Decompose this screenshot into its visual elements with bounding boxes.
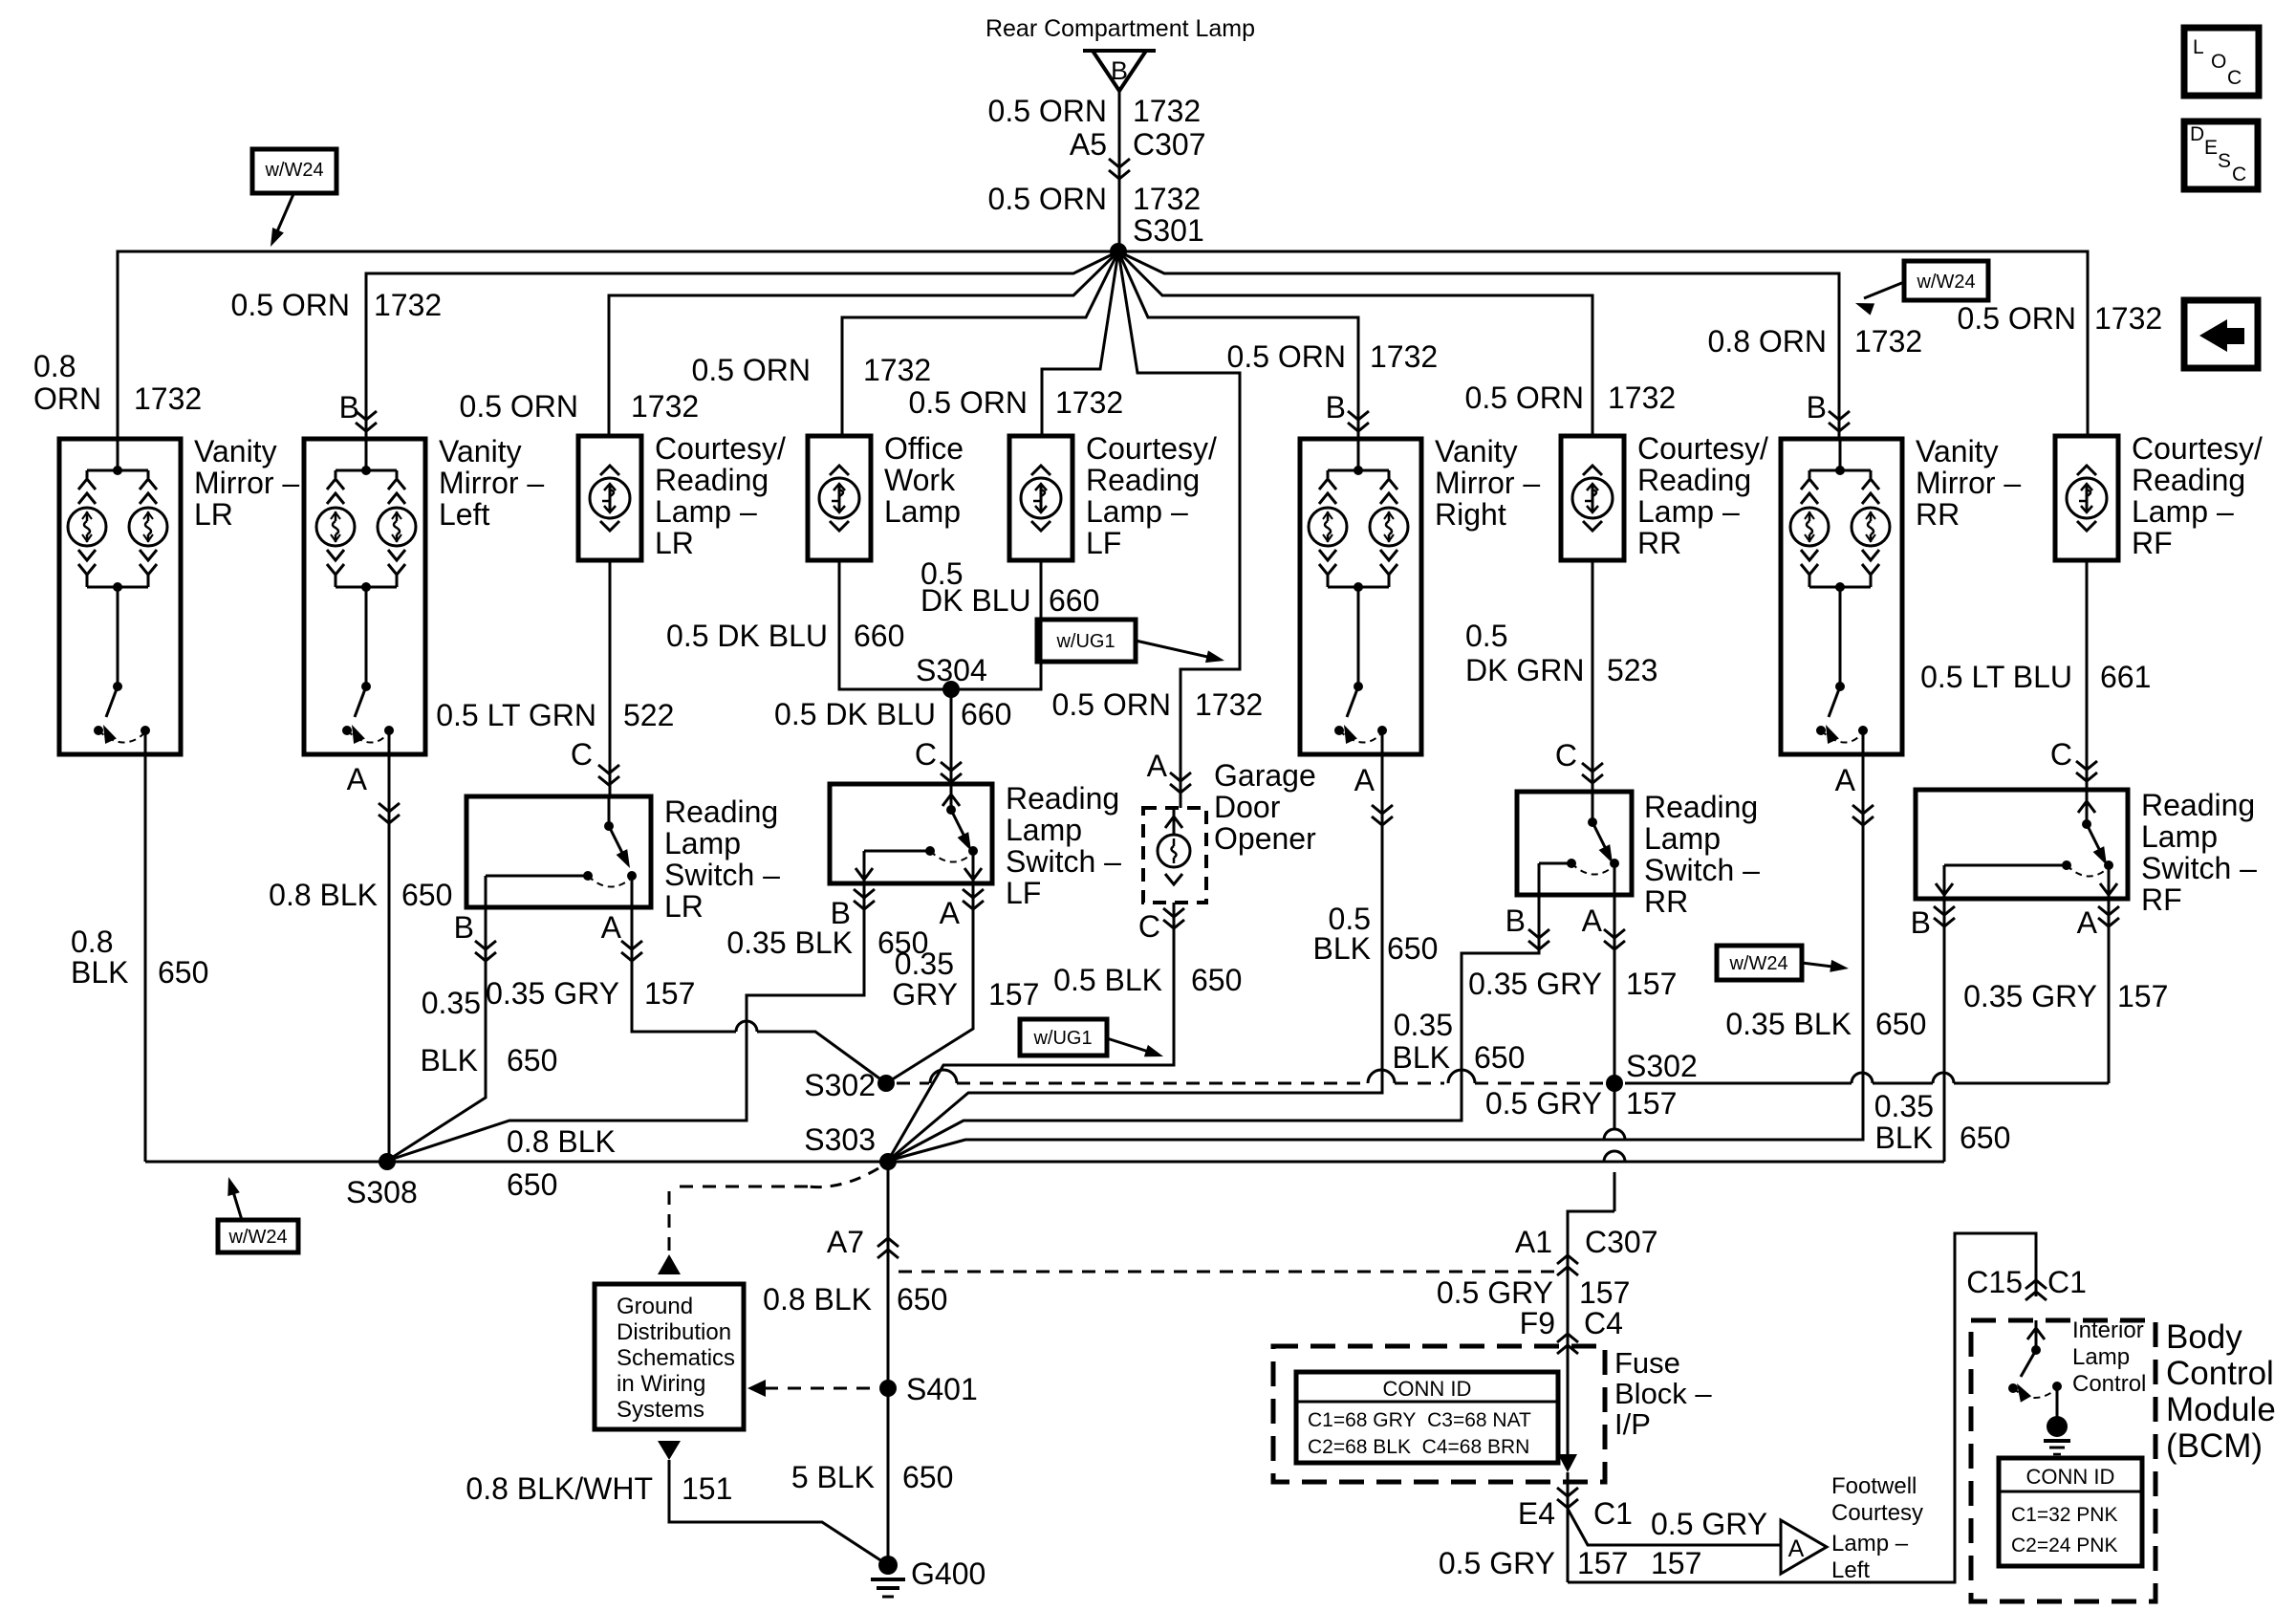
svg-text:650: 650 <box>507 1167 557 1202</box>
connector chevrons - switch RR pin A <box>1604 929 1625 938</box>
svg-text:S303: S303 <box>804 1122 876 1157</box>
svg-text:1732: 1732 <box>863 353 931 387</box>
svg-text:B: B <box>1326 390 1346 425</box>
svg-text:0.5 GRY: 0.5 GRY <box>1651 1507 1767 1541</box>
splice S301 <box>1110 243 1127 260</box>
svg-text:0.5 ORN: 0.5 ORN <box>1958 301 2076 336</box>
svg-text:C: C <box>1555 738 1577 773</box>
svg-text:Vanity: Vanity <box>194 434 277 468</box>
wire 0.5 BLK 650 - vanity right ground to S303 <box>888 755 1382 1161</box>
svg-text:(BCM): (BCM) <box>2166 1427 2263 1465</box>
svg-text:523: 523 <box>1607 653 1657 687</box>
svg-text:0.5 ORN: 0.5 ORN <box>1465 381 1584 415</box>
svg-text:0.5 DK BLU: 0.5 DK BLU <box>666 619 828 653</box>
svg-text:157: 157 <box>1626 967 1677 1001</box>
svg-text:Lamp: Lamp <box>1006 813 1082 847</box>
wire 0.5 BLK 650 - garage door opener ground to S303 <box>888 903 1174 1161</box>
svg-text:w/UG1: w/UG1 <box>1032 1028 1092 1049</box>
wire 0.5 LT BLU 661 - courtesy RF lamp to switch <box>2086 560 2089 790</box>
svg-text:0.8 BLK/WHT: 0.8 BLK/WHT <box>466 1471 653 1506</box>
svg-text:Reading: Reading <box>1086 463 1200 497</box>
svg-text:157: 157 <box>1626 1086 1677 1121</box>
wire 0.35 GRY 157 - switch RR pin A to S302 <box>1614 895 1616 1083</box>
svg-text:Lamp –: Lamp – <box>2132 494 2234 529</box>
svg-text:BLK: BLK <box>71 955 128 990</box>
svg-text:Switch –: Switch – <box>664 858 780 892</box>
svg-text:BLK: BLK <box>1313 931 1371 966</box>
connector C307 chevrons on feed wire <box>1109 159 1130 167</box>
reference flag w/W24 (top left) <box>252 149 336 193</box>
svg-text:1732: 1732 <box>1055 385 1123 420</box>
wire 0.5 DK BLU 660 - courtesy LF lamp to S304 <box>951 560 1041 689</box>
svg-text:w/W24: w/W24 <box>264 160 323 181</box>
svg-text:CONN ID: CONN ID <box>2026 1465 2115 1489</box>
svg-text:w/UG1: w/UG1 <box>1055 631 1115 652</box>
wire bus3 right - S301 to Courtesy RR drop <box>1118 251 1592 435</box>
svg-text:C307: C307 <box>1585 1225 1658 1259</box>
wire bus4 left - S301 to Office Work Lamp drop <box>842 251 1118 436</box>
ground symbol inside BCM <box>2047 1416 2068 1437</box>
component Body Control Module BCM (dashed) <box>1971 1320 2155 1601</box>
svg-text:Reading: Reading <box>655 463 769 497</box>
svg-text:A: A <box>2077 905 2098 940</box>
ground G400 <box>878 1556 898 1575</box>
svg-text:0.8 ORN: 0.8 ORN <box>1708 324 1827 359</box>
svg-text:1732: 1732 <box>1854 324 1922 359</box>
svg-text:Mirror –: Mirror – <box>1916 466 2021 500</box>
svg-text:1732: 1732 <box>2094 301 2162 336</box>
svg-text:0.35 BLK: 0.35 BLK <box>1725 1007 1852 1041</box>
component Reading Lamp Switch - LF <box>830 784 992 883</box>
wire 0.8 BLK 650 - S303 down to G400 <box>887 1162 890 1565</box>
svg-text:0.5 GRY: 0.5 GRY <box>1437 1275 1553 1310</box>
svg-text:650: 650 <box>401 878 452 912</box>
svg-text:0.5 ORN: 0.5 ORN <box>988 94 1107 128</box>
wire 0.5 LT GRN 522 - courtesy LR lamp to switch <box>609 560 612 796</box>
svg-text:DK BLU: DK BLU <box>921 583 1031 618</box>
table CONN ID - fuse block <box>1296 1372 1558 1463</box>
svg-text:C: C <box>2232 163 2246 185</box>
hop - RF pin A wire over RF pin B wire <box>1933 1073 1954 1083</box>
svg-text:650: 650 <box>1875 1007 1926 1041</box>
svg-text:C1=32 PNK: C1=32 PNK <box>2011 1504 2117 1526</box>
wire 0.35 GRY 157 - switch LF pin A to S302 <box>886 883 973 1083</box>
connector chevrons - switch RF pin A <box>2098 906 2119 915</box>
svg-text:650: 650 <box>1960 1121 2010 1155</box>
svg-text:Opener: Opener <box>1214 821 1316 856</box>
svg-text:0.5 LT GRN: 0.5 LT GRN <box>436 698 596 732</box>
component Reading Lamp Switch - RR <box>1517 792 1632 895</box>
connector chevrons - A7 C307 <box>877 1250 899 1258</box>
svg-text:A: A <box>1147 749 1168 783</box>
component Garage Door Opener (dashed) <box>1143 808 1206 903</box>
svg-text:E4: E4 <box>1518 1496 1555 1531</box>
svg-text:Body: Body <box>2166 1318 2242 1356</box>
svg-text:A: A <box>347 762 368 796</box>
connector chevrons - switch LF pin B <box>854 889 875 898</box>
svg-text:Vanity: Vanity <box>439 434 522 468</box>
svg-text:BLK: BLK <box>1875 1121 1933 1155</box>
svg-text:0.35: 0.35 <box>1394 1008 1453 1042</box>
svg-text:C2=68 BLK C4=68 BRN: C2=68 BLK C4=68 BRN <box>1308 1436 1529 1458</box>
hop - S302 dashed over garage door ground wire <box>930 1070 957 1083</box>
svg-text:Switch –: Switch – <box>1006 844 1121 879</box>
svg-text:Reading: Reading <box>1637 463 1751 497</box>
svg-text:C: C <box>2050 737 2072 772</box>
arrow out of Ground Distribution box (bottom) <box>658 1441 681 1460</box>
connector chevrons - garage door opener output <box>1163 908 1184 917</box>
connector chevrons - vanity RR output <box>1852 805 1874 814</box>
svg-text:RR: RR <box>1916 497 1960 532</box>
svg-text:B: B <box>1911 905 1931 940</box>
reference flag w/W24 (bottom left) <box>218 1220 298 1252</box>
svg-text:Vanity: Vanity <box>1916 434 1999 468</box>
svg-text:L: L <box>2193 36 2204 58</box>
connector chevrons - F9 C4 <box>1557 1345 1578 1354</box>
reference flag w/W24 (mid right) <box>1717 946 1802 980</box>
component Reading Lamp Switch - RF <box>1916 790 2128 899</box>
svg-text:DK GRN: DK GRN <box>1465 653 1584 687</box>
wire 0.35 BLK 650 - switch LF pin B to S308 <box>387 883 864 1161</box>
svg-text:LR: LR <box>194 497 233 532</box>
svg-text:D: D <box>2190 123 2204 145</box>
svg-text:Lamp –: Lamp – <box>1637 494 1740 529</box>
svg-text:157: 157 <box>644 976 695 1011</box>
component box Ground Distribution Schematics in Wiring Systems <box>595 1284 744 1429</box>
svg-text:Right: Right <box>1435 497 1506 532</box>
svg-text:1732: 1732 <box>134 381 202 416</box>
svg-text:Lamp: Lamp <box>1644 821 1721 856</box>
svg-text:LF: LF <box>1006 876 1041 910</box>
svg-text:650: 650 <box>1474 1040 1525 1075</box>
hop - S302 dashed over switch RR pin B wire <box>1448 1070 1475 1083</box>
svg-text:650: 650 <box>1387 931 1438 966</box>
svg-text:A: A <box>940 896 961 930</box>
svg-text:Lamp –: Lamp – <box>1831 1531 1909 1557</box>
svg-text:Courtesy/: Courtesy/ <box>655 431 786 466</box>
svg-text:157: 157 <box>2117 979 2168 1013</box>
svg-text:Vanity: Vanity <box>1435 434 1518 468</box>
lamp Office Work Lamp <box>808 436 871 560</box>
svg-text:Schematics: Schematics <box>617 1345 735 1371</box>
svg-text:0.5 GRY: 0.5 GRY <box>1439 1546 1555 1580</box>
wire 0.5 DK BLU 660 - office work lamp to S304 <box>839 560 951 689</box>
svg-text:Control: Control <box>2072 1371 2146 1397</box>
svg-text:0.35 GRY: 0.35 GRY <box>1963 979 2097 1013</box>
svg-text:0.5 ORN: 0.5 ORN <box>1227 339 1346 374</box>
dashed wire - S401 to Ground Distribution reference <box>765 1387 877 1390</box>
splice S308 <box>379 1153 396 1170</box>
svg-text:660: 660 <box>961 697 1011 731</box>
connector chevrons - C15 C1 <box>2025 1292 2047 1300</box>
splice S302 (left) <box>877 1075 895 1092</box>
svg-text:B: B <box>454 910 474 945</box>
connector chevrons - switch LR pin B <box>475 941 496 949</box>
svg-text:1732: 1732 <box>1608 381 1676 415</box>
wire 0.35 BLK 650 - switch RF pin B to trunk <box>1943 899 1946 1162</box>
svg-text:S401: S401 <box>906 1372 978 1406</box>
splice S303 <box>879 1153 897 1170</box>
svg-text:O: O <box>2211 51 2226 73</box>
svg-text:RF: RF <box>2132 526 2173 560</box>
svg-text:0.35: 0.35 <box>422 986 481 1020</box>
connector chevrons - vanity right output <box>1372 805 1393 814</box>
svg-text:Mirror –: Mirror – <box>194 466 299 500</box>
svg-text:0.35 BLK: 0.35 BLK <box>726 925 853 960</box>
svg-text:0.35: 0.35 <box>895 947 954 981</box>
svg-text:650: 650 <box>897 1282 947 1317</box>
lamp Courtesy/Reading Lamp - LF <box>1009 436 1072 560</box>
wire 0.35 GRY 157 - switch RF pin A to S302 <box>2108 899 2111 1083</box>
connector chevrons - switch RR input <box>1582 763 1603 772</box>
svg-text:A: A <box>601 910 622 945</box>
svg-text:A1: A1 <box>1515 1225 1552 1259</box>
switch Interior Lamp Control inside BCM <box>2035 1320 2038 1350</box>
connector chevrons - switch LF pin A <box>963 889 984 898</box>
svg-text:0.5 BLK: 0.5 BLK <box>1053 963 1162 997</box>
svg-text:Systems: Systems <box>617 1397 704 1423</box>
svg-text:0.5 ORN: 0.5 ORN <box>1052 687 1171 722</box>
wire 0.5 GRY 157 - fuse block E4 down <box>1567 1472 1570 1582</box>
connector chevrons - E4 C1 <box>1557 1488 1578 1496</box>
svg-text:0.35: 0.35 <box>1874 1089 1934 1123</box>
connector chevrons - garage door opener input <box>1170 773 1191 781</box>
connector chevrons - vanity left output <box>379 803 400 812</box>
connector chevrons - switch RF input <box>2076 761 2097 770</box>
wire 0.35 BLK 650 - switch LR pin B to S308 <box>387 907 486 1161</box>
wire bus2 right - S301 to Vanity Mirror RR drop <box>1118 251 1839 439</box>
svg-text:Lamp: Lamp <box>2072 1344 2130 1370</box>
svg-text:RF: RF <box>2141 882 2182 917</box>
svg-text:0.5 LT BLU: 0.5 LT BLU <box>1920 660 2072 694</box>
arrow into Ground Distribution box (right) <box>747 1380 766 1397</box>
wire 0.5 GRY 157 - S302 to fuse block pin A1 <box>1614 1083 1616 1129</box>
svg-text:Work: Work <box>884 463 956 497</box>
svg-text:Fuse: Fuse <box>1614 1346 1680 1380</box>
connector triangle A - Footwell Courtesy Lamp - Left <box>1781 1520 1827 1574</box>
connector chevrons - switch LR input <box>598 765 619 773</box>
svg-text:Reading: Reading <box>1644 790 1758 824</box>
dashed wire - S303 to Ground Distribution reference <box>808 1168 878 1187</box>
svg-text:Ground: Ground <box>617 1294 693 1319</box>
svg-text:A7: A7 <box>827 1225 864 1259</box>
svg-text:S308: S308 <box>346 1175 418 1209</box>
svg-text:660: 660 <box>1049 583 1099 618</box>
svg-text:C1: C1 <box>1593 1496 1633 1531</box>
wire 0.5 GRY 157 - E4 to BCM C15 <box>1568 1233 2036 1582</box>
svg-text:Door: Door <box>1214 790 1281 824</box>
svg-text:Control: Control <box>2166 1355 2274 1392</box>
svg-text:0.8 BLK: 0.8 BLK <box>763 1282 872 1317</box>
svg-text:Module: Module <box>2166 1391 2276 1428</box>
svg-text:Block –: Block – <box>1614 1377 1712 1410</box>
svg-text:151: 151 <box>682 1471 732 1506</box>
svg-text:0.8 BLK: 0.8 BLK <box>507 1124 616 1159</box>
svg-text:C15: C15 <box>1966 1265 2023 1299</box>
reference box back-arrow <box>2184 300 2258 368</box>
wire bus2 left - S301 to Vanity Mirror Left drop <box>366 251 1118 439</box>
svg-text:C: C <box>2227 67 2242 89</box>
svg-text:0.5: 0.5 <box>1465 619 1507 653</box>
svg-text:Office: Office <box>884 431 964 466</box>
svg-text:0.35 GRY: 0.35 GRY <box>1468 967 1602 1001</box>
wire 0.35 BLK 650 - vanity RR ground to S303 <box>888 755 1863 1161</box>
svg-text:S: S <box>2218 150 2231 172</box>
svg-text:C307: C307 <box>1133 127 1206 162</box>
svg-text:G400: G400 <box>911 1557 986 1591</box>
svg-text:w/W24: w/W24 <box>1728 953 1787 974</box>
svg-text:in Wiring: in Wiring <box>617 1371 705 1397</box>
svg-text:650: 650 <box>158 955 208 990</box>
svg-text:C2=24 PNK: C2=24 PNK <box>2011 1535 2117 1557</box>
splice S302 (right) <box>1606 1075 1623 1092</box>
wire 0.8 BLK/WHT 151 - to G400 <box>669 1460 888 1565</box>
wire bus1 0.5 ORN 1732 - main top bus from Vanity LR to Courtesy RF <box>118 251 2088 439</box>
svg-text:Lamp: Lamp <box>664 826 741 860</box>
svg-text:Distribution: Distribution <box>617 1319 731 1345</box>
connector chevrons - vanity RR feed <box>1829 411 1850 420</box>
wire trunk 0.8 BLK 650 - main ground trunk <box>145 1161 1944 1164</box>
svg-text:661: 661 <box>2100 660 2151 694</box>
connector chevrons - A1 C307 <box>1557 1267 1578 1275</box>
table CONN ID - BCM <box>1999 1458 2142 1566</box>
component Vanity Mirror - RR <box>1781 439 1902 754</box>
svg-text:Reading: Reading <box>664 795 778 829</box>
svg-text:S301: S301 <box>1133 213 1204 248</box>
svg-text:1732: 1732 <box>1195 687 1263 722</box>
svg-text:157: 157 <box>1579 1275 1630 1310</box>
svg-text:0.5 ORN: 0.5 ORN <box>988 182 1107 216</box>
wire - S301 to Garage Door Opener drop <box>1118 251 1240 808</box>
svg-text:B: B <box>1111 56 1128 85</box>
svg-text:650: 650 <box>507 1043 557 1078</box>
svg-text:650: 650 <box>1191 963 1242 997</box>
svg-text:1732: 1732 <box>1133 182 1201 216</box>
svg-text:Reading: Reading <box>2141 788 2255 822</box>
component Vanity Mirror - Left <box>304 439 425 754</box>
svg-text:0.5 ORN: 0.5 ORN <box>909 385 1028 420</box>
svg-text:0.5 ORN: 0.5 ORN <box>231 288 350 322</box>
hop - A1 wire over ground trunk <box>1604 1151 1625 1162</box>
svg-text:Left: Left <box>439 497 489 532</box>
svg-text:A: A <box>1354 763 1375 797</box>
svg-text:C4: C4 <box>1584 1306 1623 1340</box>
svg-text:Interior: Interior <box>2072 1317 2144 1343</box>
svg-text:ORN: ORN <box>33 381 101 416</box>
svg-text:0.5 DK BLU: 0.5 DK BLU <box>774 697 936 731</box>
svg-text:Courtesy/: Courtesy/ <box>2132 431 2263 466</box>
svg-text:Switch –: Switch – <box>2141 851 2257 885</box>
connector chevrons - vanity right feed <box>1348 411 1369 420</box>
svg-text:S302: S302 <box>1626 1049 1698 1083</box>
lamp Courtesy/Reading Lamp - RR <box>1561 436 1624 560</box>
reference box LOC <box>2184 28 2259 96</box>
svg-text:157: 157 <box>988 977 1039 1012</box>
svg-text:1732: 1732 <box>1133 94 1201 128</box>
reference flag w/W24 (top right) <box>1904 261 1988 300</box>
svg-text:Footwell: Footwell <box>1831 1473 1917 1499</box>
component Vanity Mirror - LR <box>59 439 181 754</box>
wire 0.5 GRY 157 - A1 to fuse block F9 <box>1567 1272 1570 1350</box>
wire bus3 left - S301 to Courtesy LR drop <box>609 251 1118 436</box>
svg-text:Left: Left <box>1831 1557 1870 1583</box>
hop - S302 dashed over vanity right ground wire <box>1368 1070 1395 1083</box>
svg-text:Rear Compartment Lamp: Rear Compartment Lamp <box>986 15 1255 42</box>
component Reading Lamp Switch - LR <box>466 796 651 907</box>
svg-text:B: B <box>1505 903 1526 938</box>
svg-text:Reading: Reading <box>1006 781 1119 816</box>
svg-text:A: A <box>1582 903 1603 938</box>
connector chevrons - switch LF input <box>941 762 962 771</box>
svg-text:C1: C1 <box>2047 1265 2087 1299</box>
svg-text:Lamp –: Lamp – <box>1086 494 1188 529</box>
svg-text:Mirror –: Mirror – <box>1435 466 1540 500</box>
reference box DESC <box>2184 121 2258 189</box>
splice S304 <box>942 681 960 698</box>
svg-text:BLK: BLK <box>1393 1040 1450 1075</box>
wire 0.35 BLK 650 - switch RR pin B to S303 <box>888 895 1539 1161</box>
svg-text:Lamp: Lamp <box>2141 819 2218 854</box>
svg-text:0.5 GRY: 0.5 GRY <box>1485 1086 1602 1121</box>
svg-text:Garage: Garage <box>1214 758 1316 793</box>
lamp Courtesy/Reading Lamp - LR <box>578 436 641 560</box>
svg-text:Switch –: Switch – <box>1644 853 1760 887</box>
hop - LR pin A wire over LF pin B wire <box>736 1021 757 1032</box>
svg-text:GRY: GRY <box>892 977 958 1012</box>
component Fuse Block - I/P (dashed) <box>1273 1346 1605 1482</box>
svg-text:0.5 ORN: 0.5 ORN <box>692 353 811 387</box>
svg-text:S302: S302 <box>804 1068 876 1102</box>
hop - A1 wire over vanity RR ground run <box>1604 1129 1625 1140</box>
hop - RF pin A wire over vanity RR ground wire <box>1852 1073 1873 1083</box>
reference flag w/UG1 (upper) <box>1037 620 1136 662</box>
svg-text:522: 522 <box>623 698 674 732</box>
svg-text:LF: LF <box>1086 526 1121 560</box>
wire 0.5 DK GRN 523 - courtesy RR lamp to switch <box>1592 560 1594 792</box>
wire - rear compartment lamp feed to S301 <box>1118 91 1121 251</box>
wire bus4 right - S301 to Vanity Mirror Right drop <box>1118 251 1358 440</box>
svg-text:B: B <box>1807 390 1827 425</box>
svg-text:I/P: I/P <box>1614 1407 1651 1441</box>
svg-text:157: 157 <box>1651 1546 1701 1580</box>
svg-text:C: C <box>915 737 937 772</box>
svg-text:C: C <box>571 737 593 772</box>
svg-text:0.8: 0.8 <box>33 349 76 383</box>
wire 0.35 GRY 157 - switch LR pin A to S302 <box>632 907 736 1032</box>
svg-text:1732: 1732 <box>1370 339 1438 374</box>
svg-text:5 BLK: 5 BLK <box>791 1460 875 1494</box>
wire - S301 to Courtesy LF drop <box>1042 251 1118 436</box>
lamp Courtesy/Reading Lamp - RF <box>2055 436 2118 560</box>
reference flag w/UG1 (lower) <box>1020 1019 1107 1056</box>
svg-text:1732: 1732 <box>631 389 699 424</box>
wire 0.5 DK BLU 660 - S304 to switch LF <box>950 689 953 784</box>
wire 0.8 BLK 650 - vanity LR ground down to trunk <box>144 754 147 1162</box>
svg-text:A: A <box>1835 763 1856 797</box>
svg-text:Courtesy: Courtesy <box>1831 1500 1923 1526</box>
wire inside fuse block <box>1567 1350 1570 1469</box>
svg-text:B: B <box>339 390 359 425</box>
svg-text:0.8: 0.8 <box>71 925 113 959</box>
svg-text:CONN ID: CONN ID <box>1383 1377 1472 1401</box>
connector chevrons - switch LR pin A <box>621 941 642 949</box>
svg-text:1732: 1732 <box>374 288 442 322</box>
svg-text:RR: RR <box>1644 884 1688 919</box>
splice S401 <box>879 1380 897 1397</box>
svg-text:C1=68 GRY C3=68 NAT: C1=68 GRY C3=68 NAT <box>1308 1409 1531 1431</box>
svg-text:Reading: Reading <box>2132 463 2245 497</box>
svg-text:w/W24: w/W24 <box>1916 272 1975 293</box>
